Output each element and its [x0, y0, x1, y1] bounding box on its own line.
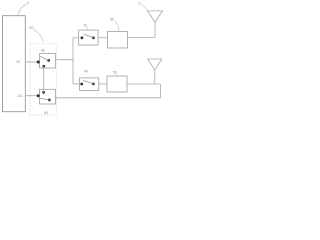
- antenna 3 feed line: [154, 70, 156, 84]
- svg-text:40: 40: [84, 70, 88, 74]
- wire switch 40 to filter 50: [99, 83, 107, 85]
- link wire between switch 82 and switch 84: [43, 66, 45, 92]
- dashed switch-module box 20: [30, 44, 56, 115]
- device body box 1: [3, 16, 26, 112]
- label 50 leader: [115, 74, 118, 77]
- switch 82 pole contact: [37, 61, 40, 64]
- wire switch 82 output horizontal: [56, 59, 74, 61]
- wire switch 30 to filter 60: [98, 37, 107, 39]
- switch 40 box: [80, 78, 99, 91]
- wire port101 to switch 84: [25, 95, 39, 97]
- switch 82 right throw contact: [47, 59, 50, 62]
- switch 30 lever: [84, 34, 94, 38]
- svg-text:82: 82: [41, 49, 45, 53]
- antenna 2 feed line: [154, 22, 156, 37]
- svg-text:20: 20: [29, 25, 34, 30]
- switch 40 right contact: [92, 83, 95, 86]
- switch 82 lever: [40, 56, 49, 60]
- switch 84 right throw contact: [48, 99, 51, 102]
- wire port15 to switch 82: [25, 61, 39, 63]
- antenna 2 triangle: [148, 11, 163, 23]
- switch 82 box: [40, 54, 56, 69]
- svg-text:50: 50: [113, 70, 117, 74]
- wire split vertical at x73: [72, 38, 74, 84]
- wire filter 50 to junction: [127, 83, 161, 85]
- switch 40 left contact: [80, 83, 83, 86]
- switch 40 lever: [83, 80, 93, 84]
- wire switch 84 output: [56, 97, 161, 99]
- svg-text:30: 30: [83, 24, 87, 28]
- svg-text:84: 84: [44, 111, 48, 115]
- label 2 leader: [141, 4, 147, 10]
- switch 30 box: [79, 30, 98, 45]
- wire filter 60 to antenna 2: [128, 36, 156, 38]
- svg-text:2: 2: [138, 1, 141, 6]
- label 20 leader: [33, 30, 43, 42]
- svg-text:60: 60: [110, 17, 114, 21]
- switch 30 right contact: [92, 36, 95, 39]
- label 30 leader: [86, 27, 88, 30]
- filter 60 box: [108, 32, 128, 49]
- label 1 leader: [18, 4, 27, 16]
- switch 84 top throw contact: [42, 91, 45, 94]
- label 60 leader: [115, 21, 119, 32]
- wire to switch 40: [73, 83, 80, 85]
- switch 84 pole contact: [37, 94, 40, 97]
- junction vertical wire: [160, 84, 162, 98]
- svg-text:1: 1: [27, 0, 30, 5]
- svg-text:15: 15: [16, 60, 20, 64]
- wire to switch 30: [73, 37, 79, 39]
- switch 84 lever: [39, 98, 49, 100]
- switch 84 box: [40, 89, 56, 104]
- antenna 3 triangle: [148, 59, 162, 70]
- switch 30 left contact: [81, 36, 84, 39]
- filter 50 box: [107, 76, 127, 92]
- svg-text:101: 101: [17, 94, 23, 98]
- switch 82 bottom throw contact: [42, 65, 45, 68]
